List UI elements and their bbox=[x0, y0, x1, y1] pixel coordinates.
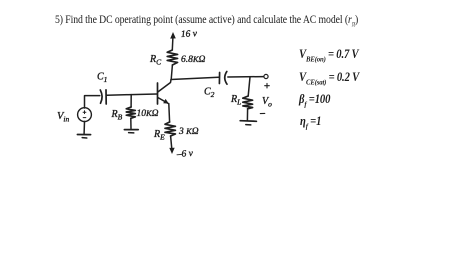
svg-text:16 v: 16 v bbox=[181, 29, 198, 40]
source Vin bbox=[78, 108, 92, 122]
wire collector to C2 bbox=[171, 77, 219, 79]
svg-text:10KΩ: 10KΩ bbox=[137, 108, 159, 119]
title text bbox=[55, 14, 358, 28]
capacitor C2 bbox=[219, 72, 227, 85]
wire RE to -6V arrow bbox=[171, 136, 172, 149]
resistor RB bbox=[126, 107, 135, 118]
wire RB bottom bbox=[130, 118, 132, 128]
node +16V supply arrow bbox=[170, 32, 176, 50]
svg-text:3 KΩ: 3 KΩ bbox=[178, 126, 199, 137]
resistor RE bbox=[165, 122, 175, 136]
wire down to RL bbox=[248, 77, 250, 96]
wire RC bottom to collector node bbox=[171, 65, 172, 80]
wire RL bottom bbox=[246, 109, 248, 120]
given value eta_f bbox=[300, 114, 321, 130]
wire emitter down bbox=[168, 104, 171, 122]
svg-text:Vo: Vo bbox=[262, 96, 272, 109]
svg-text:C2: C2 bbox=[204, 87, 215, 100]
transistor Q1 bbox=[158, 80, 172, 105]
label + output bbox=[265, 83, 270, 88]
given value VBE(on) bbox=[299, 47, 359, 63]
wire RB drop bbox=[130, 95, 132, 107]
ground under RL bbox=[240, 121, 256, 125]
given value beta_f bbox=[299, 92, 330, 108]
wire C2 to output terminal bbox=[228, 76, 263, 78]
svg-text:RB: RB bbox=[111, 109, 123, 122]
resistor RC bbox=[167, 50, 177, 65]
label minus output bbox=[260, 112, 265, 114]
svg-text:Vin: Vin bbox=[57, 111, 70, 124]
svg-text:6.8KΩ: 6.8KΩ bbox=[181, 54, 206, 65]
svg-text:–6 v: –6 v bbox=[176, 149, 195, 160]
wire Vin to C1 bbox=[85, 96, 100, 108]
svg-text:C1: C1 bbox=[97, 72, 107, 85]
given value VCE(sat) bbox=[299, 70, 359, 86]
svg-text:RE: RE bbox=[153, 129, 165, 142]
ground under RB bbox=[124, 130, 138, 133]
ground under Vin bbox=[77, 135, 90, 139]
wire Vin bottom bbox=[83, 122, 85, 134]
resistor RL bbox=[243, 96, 253, 109]
node output terminal bbox=[264, 74, 268, 78]
svg-text:RL: RL bbox=[230, 94, 241, 107]
svg-text:RC: RC bbox=[149, 54, 162, 67]
wire base to transistor bbox=[107, 94, 157, 95]
node -6V supply arrow bbox=[169, 148, 174, 154]
capacitor C1 bbox=[100, 90, 106, 104]
